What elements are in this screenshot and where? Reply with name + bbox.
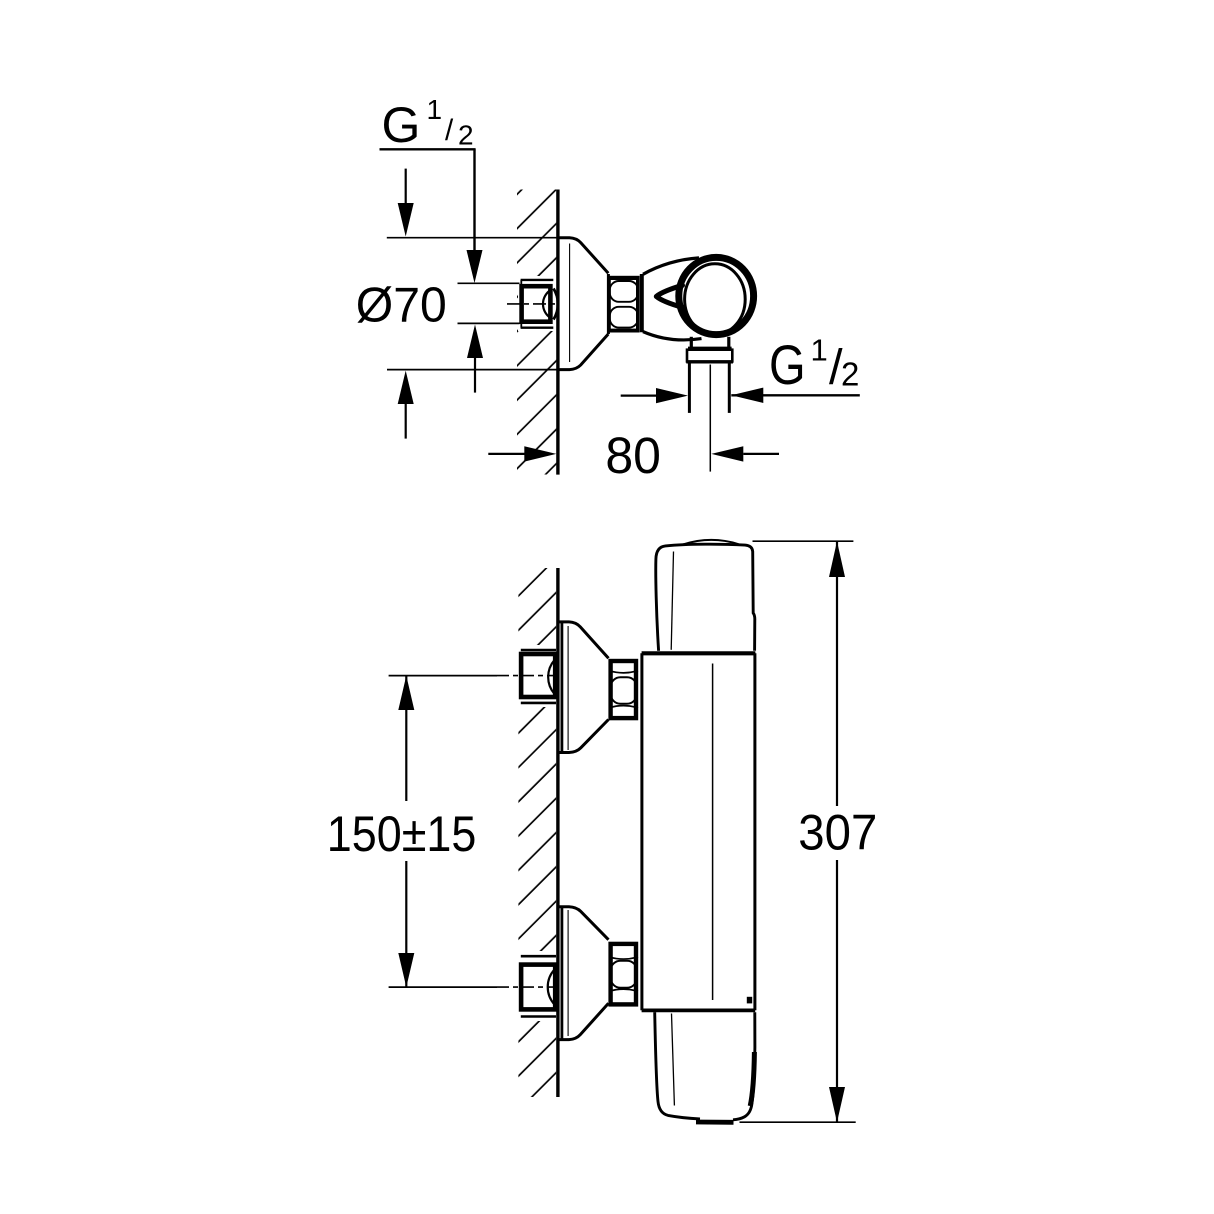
- svg-text:/: /: [445, 114, 454, 147]
- svg-text:1: 1: [427, 94, 443, 125]
- svg-text:1: 1: [811, 333, 828, 368]
- svg-text:2: 2: [458, 120, 474, 151]
- svg-text:G: G: [382, 97, 421, 153]
- svg-text:80: 80: [605, 427, 661, 484]
- svg-text:Ø70: Ø70: [356, 279, 447, 333]
- svg-text:307: 307: [798, 804, 877, 860]
- svg-text:150±15: 150±15: [327, 806, 477, 862]
- svg-text:G: G: [769, 333, 806, 396]
- svg-text:2: 2: [841, 355, 859, 392]
